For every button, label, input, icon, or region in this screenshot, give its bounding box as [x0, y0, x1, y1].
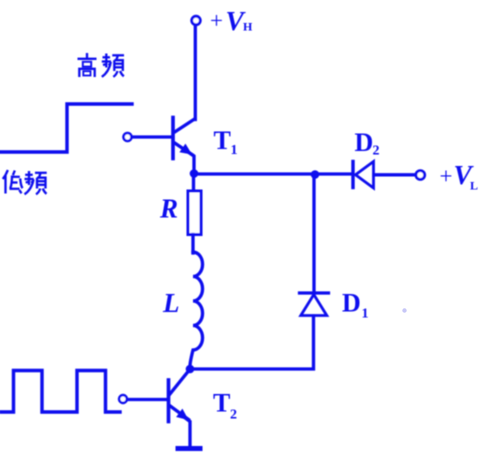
svg-text:+: + — [210, 8, 223, 33]
svg-text:+: + — [440, 164, 453, 189]
svg-text:L: L — [162, 288, 180, 318]
svg-text:H: H — [243, 20, 253, 34]
svg-text:T: T — [214, 126, 231, 155]
svg-text:L: L — [470, 179, 478, 193]
svg-text:2: 2 — [230, 408, 237, 423]
svg-text:1: 1 — [362, 307, 369, 322]
svg-text:D: D — [355, 128, 374, 157]
svg-text:T: T — [213, 389, 230, 418]
svg-text:1: 1 — [231, 143, 238, 158]
svg-text:2: 2 — [373, 144, 380, 159]
svg-text:R: R — [159, 194, 178, 224]
svg-text:D: D — [342, 289, 361, 318]
